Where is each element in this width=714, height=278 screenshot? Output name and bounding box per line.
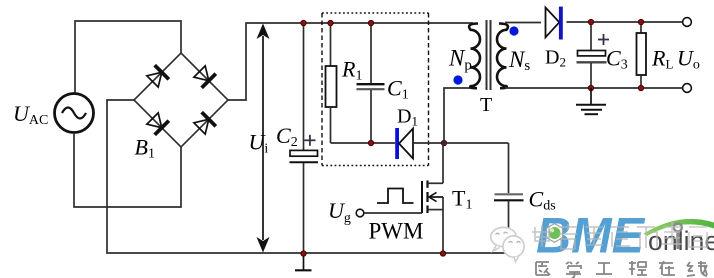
wire junction to Cds xyxy=(444,142,509,144)
junction dot snubber bottom xyxy=(368,140,373,145)
wire bridge right vertex to top rail xyxy=(228,23,473,100)
AC source U_AC xyxy=(55,94,94,133)
blue dot primary xyxy=(453,75,462,84)
ground secondary xyxy=(576,88,606,114)
bridge diode bottom-right xyxy=(192,112,215,135)
transformer secondary Ns xyxy=(497,24,508,89)
chinese caption 学 xyxy=(566,262,581,278)
wrench on i xyxy=(674,224,682,250)
capacitor C3 xyxy=(577,22,607,88)
arrow U_i xyxy=(257,24,270,253)
wire junction to primary bottom xyxy=(444,88,472,143)
transformer core xyxy=(487,20,491,90)
chinese caption 在 xyxy=(659,261,675,275)
ground primary xyxy=(295,254,312,271)
BME hexagon nut xyxy=(547,224,563,243)
junction dot source xyxy=(440,251,445,256)
wire secondary top rail xyxy=(567,21,683,23)
wire snubber bottom xyxy=(331,142,396,144)
diode D2 xyxy=(546,7,563,40)
chinese caption 线 xyxy=(687,261,707,276)
junction dot RL bottom xyxy=(638,85,643,90)
wire AC top loop xyxy=(75,21,181,93)
wire secondary bottom rail xyxy=(505,87,683,89)
capacitor C2 xyxy=(290,23,319,253)
watermark chinese chars (simplified strokes) xyxy=(532,222,707,249)
MOSFET T1 xyxy=(422,143,443,253)
plus sign C3 xyxy=(598,34,609,45)
gate terminal circle xyxy=(356,209,364,217)
junction dot C3 top xyxy=(588,19,593,24)
capacitor C1 xyxy=(357,23,385,143)
bridge diamond wires xyxy=(134,53,228,147)
junction dot C2 bottom xyxy=(301,251,306,256)
resistor RL xyxy=(637,22,647,88)
wire bridge left vertex down to bottom rail xyxy=(107,100,509,253)
svg-text:PWM: PWM xyxy=(369,219,424,244)
junction dot C2 top xyxy=(301,20,306,25)
wechat watermark icon xyxy=(491,227,524,261)
resistor R1 xyxy=(326,23,337,143)
wire AC bottom xyxy=(74,133,181,207)
capacitor Cds xyxy=(494,143,524,253)
wire secondary top xyxy=(505,22,541,24)
junction dot RL top xyxy=(638,19,643,24)
junction dot C1 top xyxy=(368,20,373,25)
svg-text:T: T xyxy=(480,94,492,116)
transformer primary Np xyxy=(469,24,480,89)
bridge diode bottom-left xyxy=(145,111,168,134)
chinese caption 工 xyxy=(596,263,612,274)
terminal top output xyxy=(683,18,692,27)
blue dot secondary xyxy=(509,26,518,35)
PWM pulse symbol xyxy=(377,189,414,204)
diode D1 xyxy=(395,128,444,159)
plus sign C2 xyxy=(304,135,315,146)
wire gate lead xyxy=(364,212,422,214)
terminal bottom output xyxy=(683,84,692,93)
junction dot R1 top xyxy=(328,20,333,25)
dashed snubber box xyxy=(322,13,429,166)
chinese caption 医 xyxy=(536,262,550,275)
chinese caption 程 xyxy=(629,261,647,275)
bridge diode top-left xyxy=(145,65,168,88)
junction dot C3 bottom xyxy=(588,85,593,90)
node drain junction xyxy=(441,140,446,145)
bridge diode top-right xyxy=(192,64,215,87)
